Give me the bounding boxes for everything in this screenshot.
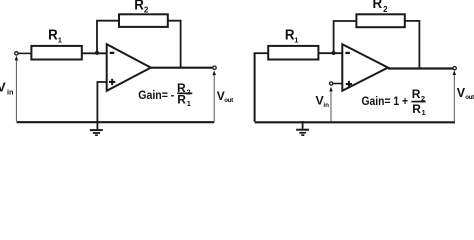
svg-text:R: R: [412, 87, 421, 101]
svg-text:R: R: [177, 93, 186, 107]
svg-text:Gain= 1 +: Gain= 1 +: [362, 94, 409, 108]
svg-text:1: 1: [187, 99, 191, 108]
svg-text:V: V: [0, 80, 6, 95]
svg-text:2: 2: [144, 6, 149, 15]
svg-text:2: 2: [383, 5, 388, 14]
svg-text:1: 1: [58, 35, 62, 44]
svg-text:2: 2: [187, 87, 191, 96]
svg-text:R: R: [412, 102, 421, 116]
svg-text:2: 2: [421, 94, 425, 103]
svg-text:Gain= -: Gain= -: [138, 88, 174, 102]
svg-text:in: in: [323, 102, 329, 109]
svg-text:out: out: [224, 97, 234, 104]
svg-text:1: 1: [294, 35, 298, 44]
svg-text:in: in: [7, 88, 14, 97]
svg-text:out: out: [465, 94, 474, 101]
svg-text:1: 1: [422, 108, 426, 117]
svg-text:R: R: [373, 0, 383, 12]
